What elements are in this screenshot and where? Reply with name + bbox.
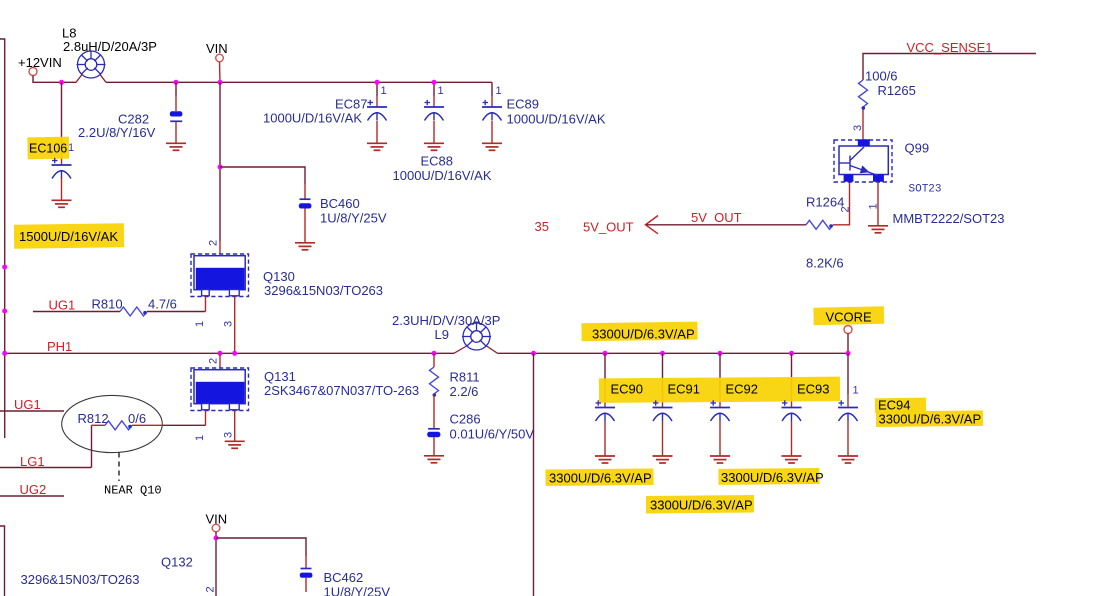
svg-text:2: 2 xyxy=(205,586,217,592)
transistor Q131 pin 3 wire xyxy=(234,410,236,441)
svg-text:2.3UH/D/V/30A/3P: 2.3UH/D/V/30A/3P xyxy=(392,313,500,328)
svg-text:1000U/D/16V/AK: 1000U/D/16V/AK xyxy=(393,168,492,183)
capacitor C286 xyxy=(427,429,440,437)
node junction dot on left bus (upper) xyxy=(2,265,7,270)
wire L9 to VCORE bus xyxy=(498,352,849,354)
ground EC92 xyxy=(710,456,730,463)
svg-text:3: 3 xyxy=(223,321,235,327)
svg-text:Q131: Q131 xyxy=(264,369,296,384)
transistor Q99 pin 1 wire xyxy=(877,182,879,226)
wire BC462 branch xyxy=(216,538,306,556)
capacitor EC94 xyxy=(838,400,858,421)
ground EC106 xyxy=(52,200,72,207)
wire EC89 to ground xyxy=(491,121,493,143)
svg-text:2.8uH/D/20A/3P: 2.8uH/D/20A/3P xyxy=(63,39,157,54)
svg-text:3300U/D/6.3V/AP: 3300U/D/6.3V/AP xyxy=(592,327,695,342)
svg-text:1: 1 xyxy=(194,435,206,441)
wire R810 to Q130 pin 1 xyxy=(147,311,206,313)
svg-text:3300U/D/6.3V/AP: 3300U/D/6.3V/AP xyxy=(879,412,982,427)
svg-text:NEAR Q10: NEAR Q10 xyxy=(104,484,162,498)
capacitor EC89 pin wire xyxy=(491,82,493,96)
wire R1265 to VCC_SENSE1 xyxy=(863,54,1036,81)
capacitor EC92 xyxy=(710,400,730,421)
wire EC90 to ground xyxy=(604,421,606,456)
value highlight 3300U top xyxy=(581,322,697,342)
capacitor BC460 xyxy=(299,199,312,208)
svg-text:1000U/D/16V/AK: 1000U/D/16V/AK xyxy=(263,111,362,126)
svg-text:Q99: Q99 xyxy=(905,141,930,156)
node junction dot PH1 at left bus xyxy=(2,351,7,356)
svg-text:EC88: EC88 xyxy=(421,154,454,169)
capacitor EC91 xyxy=(653,400,673,421)
ground Q131 pin 3 xyxy=(225,441,245,448)
svg-text:8.2K/6: 8.2K/6 xyxy=(806,256,844,271)
wire LG1 riser xyxy=(91,425,93,467)
wire main VIN bus xyxy=(106,81,492,83)
ground EC90 xyxy=(595,456,615,463)
svg-text:2: 2 xyxy=(840,206,852,212)
svg-text:EC93: EC93 xyxy=(797,382,830,397)
inductor L8 xyxy=(77,51,106,78)
wire UG1 to R810 xyxy=(33,311,120,313)
svg-text:Q130: Q130 xyxy=(263,269,295,284)
svg-text:35: 35 xyxy=(535,219,549,234)
capacitor EC94 value highlight xyxy=(876,410,983,427)
svg-text:EC91: EC91 xyxy=(668,382,701,397)
ground EC88 xyxy=(424,143,444,150)
svg-text:EC94: EC94 xyxy=(878,398,911,413)
svg-text:VCORE: VCORE xyxy=(826,310,873,325)
ground EC91 xyxy=(653,456,673,463)
svg-text:Q132: Q132 xyxy=(161,555,193,570)
wire UG1 lower stub xyxy=(0,410,64,412)
svg-text:1: 1 xyxy=(868,203,880,209)
svg-text:EC87: EC87 xyxy=(335,97,368,112)
bottom left border bus wire xyxy=(0,526,5,596)
svg-text:1: 1 xyxy=(438,85,444,97)
svg-text:0/6: 0/6 xyxy=(128,411,146,426)
svg-text:2.2U/8/Y/16V: 2.2U/8/Y/16V xyxy=(78,125,156,140)
value highlight 3300U lower C xyxy=(646,495,754,513)
capacitor EC106 xyxy=(52,158,72,179)
svg-text:SOT23: SOT23 xyxy=(909,184,942,196)
inductor L9 leads xyxy=(454,346,498,353)
wire R811 to C286 xyxy=(433,395,435,429)
capacitor EC90 pin wire xyxy=(604,353,606,394)
resistor R1264 xyxy=(806,220,833,229)
node VIN terminal xyxy=(216,54,224,62)
svg-text:100/6: 100/6 xyxy=(865,69,898,84)
capacitor EC106 pin wire xyxy=(61,82,63,151)
capacitor C282 xyxy=(170,111,183,121)
svg-text:2SK3467&07N037/TO-263: 2SK3467&07N037/TO-263 xyxy=(264,383,419,398)
node junction dot EC91 xyxy=(660,351,665,356)
value highlight 3300U lower B xyxy=(718,468,819,485)
ground EC93 xyxy=(782,456,802,463)
node junction dot EC93 xyxy=(789,351,794,356)
svg-text:3296&15N03/TO263: 3296&15N03/TO263 xyxy=(264,283,383,298)
capacitor C282 pin wire xyxy=(175,82,177,96)
capacitor EC92 pin wire xyxy=(719,353,721,394)
svg-text:R812: R812 xyxy=(78,411,109,426)
inductor L8 leads xyxy=(76,75,106,83)
ground EC89 xyxy=(482,143,502,150)
resistor R811 xyxy=(430,367,439,397)
svg-text:3300U/D/6.3V/AP: 3300U/D/6.3V/AP xyxy=(721,470,824,485)
capacitor EC93 xyxy=(782,400,802,421)
node +12VIN terminal xyxy=(29,68,37,76)
wire EC94 to ground xyxy=(847,421,849,456)
svg-text:UG1: UG1 xyxy=(14,397,41,412)
wire C282 to ground xyxy=(175,122,177,143)
svg-text:VCC_SENSE1: VCC_SENSE1 xyxy=(907,40,993,55)
svg-text:1: 1 xyxy=(381,85,387,97)
transistor Q130 xyxy=(191,254,249,297)
svg-text:UG2: UG2 xyxy=(20,482,47,497)
ground C282 xyxy=(166,143,186,150)
capacitor EC91 pin wire xyxy=(662,353,664,394)
node junction dot Q130 pin 3 xyxy=(232,351,237,356)
node junction dot EC90 xyxy=(603,351,608,356)
capacitor EC87 pin wire xyxy=(376,82,378,96)
svg-text:3300U/D/6.3V/AP: 3300U/D/6.3V/AP xyxy=(650,497,753,512)
wire BC460 to ground xyxy=(304,209,306,243)
node VCORE terminal xyxy=(844,326,852,334)
wire VIN bus down to Q130 xyxy=(219,82,221,241)
wire VIN lower down to Q132 xyxy=(215,532,217,596)
transistor Q131 pin 2 wire xyxy=(219,353,221,368)
ground EC94 xyxy=(838,456,858,463)
inductor L9 xyxy=(462,323,491,350)
svg-text:R811: R811 xyxy=(450,370,480,385)
wire LG1 xyxy=(0,467,92,469)
svg-text:1U/8/Y/25V: 1U/8/Y/25V xyxy=(320,211,387,226)
svg-text:UG1: UG1 xyxy=(49,298,76,313)
svg-text:EC89: EC89 xyxy=(507,97,540,112)
svg-text:R1265: R1265 xyxy=(878,83,916,98)
wire R1264 to Q99 pin 2 xyxy=(833,182,850,225)
node junction dot on left bus (lower) xyxy=(2,309,7,314)
svg-text:0.01U/6/Y/50V: 0.01U/6/Y/50V xyxy=(450,427,535,442)
svg-text:EC90: EC90 xyxy=(611,382,644,397)
transistor Q99 emitter arrow xyxy=(860,165,870,173)
svg-text:R810: R810 xyxy=(92,297,123,312)
wire R812 to Q131 pin 1 xyxy=(132,424,163,426)
svg-text:BC460: BC460 xyxy=(320,196,360,211)
transistor Q99 package xyxy=(834,139,892,182)
svg-text:3: 3 xyxy=(223,432,235,438)
node junction dot BC462 tap xyxy=(214,536,219,541)
capacitor EC93 pin wire xyxy=(791,353,793,394)
wire PH1 bus xyxy=(5,352,454,354)
capacitor EC88 pin wire xyxy=(433,82,435,96)
ellipse callout around R812 xyxy=(62,395,163,452)
svg-text:MMBT2222/SOT23: MMBT2222/SOT23 xyxy=(893,211,1005,226)
capacitor BC462 xyxy=(300,569,313,578)
transistor Q130 pin 1 wire xyxy=(205,296,207,311)
callout leader dashed line xyxy=(118,453,120,482)
node VIN lower terminal xyxy=(212,524,220,532)
svg-text:PH1: PH1 xyxy=(47,339,72,354)
svg-text:L9: L9 xyxy=(435,327,449,342)
svg-text:5V OUT: 5V OUT xyxy=(691,210,742,225)
capacitor EC88 xyxy=(424,100,444,121)
wire EC93 to ground xyxy=(791,421,793,456)
svg-text:1: 1 xyxy=(853,385,859,397)
wire 5V_OUT arrow xyxy=(646,216,659,234)
resistor R1265 xyxy=(859,80,868,110)
wire UG2 stub xyxy=(0,495,64,497)
capacitor EC87 xyxy=(367,100,387,121)
wire right branch down xyxy=(533,353,535,596)
node junction dot R811 tap xyxy=(432,351,437,356)
svg-text:BC462: BC462 xyxy=(324,570,364,585)
capacitor EC94 pin wire xyxy=(847,353,849,394)
left border bus wire xyxy=(0,39,5,438)
node VCORE highlight xyxy=(813,306,884,325)
transistor Q130 pin 3 wire xyxy=(234,296,236,353)
node junction dot VCORE xyxy=(846,351,851,356)
svg-text:4.7/6: 4.7/6 xyxy=(148,297,177,312)
capacitor EC106 value highlight xyxy=(14,223,124,249)
svg-text:LG1: LG1 xyxy=(20,454,45,469)
svg-text:1000U/D/16V/AK: 1000U/D/16V/AK xyxy=(507,112,606,127)
svg-text:3296&15N03/TO263: 3296&15N03/TO263 xyxy=(21,572,140,587)
node junction dot EC87 xyxy=(375,80,380,85)
ground C286 xyxy=(424,456,444,463)
resistor R812 xyxy=(105,421,132,430)
value highlight 3300U lower A xyxy=(545,469,653,486)
capacitor EC106 highlight xyxy=(27,137,69,160)
wire BC460 branch xyxy=(220,167,305,184)
resistor R811 pin wire xyxy=(433,353,435,367)
svg-text:3: 3 xyxy=(852,125,864,131)
ground BC460 xyxy=(295,243,315,250)
node junction dot EC106 tap xyxy=(59,80,64,85)
transistor Q99 NPN symbol xyxy=(839,147,878,176)
node junction dot Q131 pin 2 xyxy=(218,351,223,356)
transistor Q131 pin 1 wire xyxy=(205,410,207,425)
resistor R810 xyxy=(120,307,147,316)
ground EC87 xyxy=(367,143,387,150)
capacitor EC94 ref highlight xyxy=(875,398,926,413)
wire 5V_OUT xyxy=(646,224,806,226)
wire VCORE to bus xyxy=(847,334,849,354)
transistor Q99 pin 3 wire xyxy=(862,108,864,140)
node junction dot C282 tap xyxy=(174,80,179,85)
svg-text:1500U/D/16V/AK: 1500U/D/16V/AK xyxy=(19,229,118,244)
transistor Q131 xyxy=(191,368,249,411)
svg-text:2: 2 xyxy=(208,240,220,246)
svg-text:2.2/6: 2.2/6 xyxy=(450,384,479,399)
svg-text:2: 2 xyxy=(208,358,220,364)
wire BC462 lower lead xyxy=(305,578,307,592)
svg-text:5V_OUT: 5V_OUT xyxy=(583,220,634,235)
svg-text:1: 1 xyxy=(496,85,502,97)
wire EC92 to ground xyxy=(719,421,721,456)
node junction dot right branch xyxy=(531,351,536,356)
wire EC87 to ground xyxy=(376,121,378,143)
capacitor EC90 xyxy=(595,400,615,421)
node junction dot EC88 xyxy=(432,80,437,85)
svg-text:1: 1 xyxy=(194,321,206,327)
node junction dot VIN bus xyxy=(218,80,223,85)
svg-text:VIN: VIN xyxy=(206,41,228,56)
highlight band EC90-EC93 xyxy=(599,377,840,403)
svg-text:+12VIN: +12VIN xyxy=(18,55,62,70)
wire EC91 to ground xyxy=(662,421,664,456)
wire VIN terminal to bus xyxy=(219,62,222,83)
resistor R812 left lead xyxy=(92,424,106,426)
svg-text:EC106: EC106 xyxy=(29,142,67,156)
ground Q99 xyxy=(868,226,888,233)
node junction dot BC460 tap xyxy=(218,165,223,170)
svg-text:C286: C286 xyxy=(450,412,481,427)
wire +12VIN to L8 xyxy=(33,76,76,83)
svg-text:1U/8/Y/25V: 1U/8/Y/25V xyxy=(324,585,391,596)
svg-text:1: 1 xyxy=(68,142,74,154)
wire C286 to ground xyxy=(433,437,435,455)
svg-text:3300U/D/6.3V/AP: 3300U/D/6.3V/AP xyxy=(549,471,652,486)
node junction dot EC92 xyxy=(718,351,723,356)
wire EC88 to ground xyxy=(433,121,435,143)
wire EC106 to ground xyxy=(61,177,63,200)
svg-text:EC92: EC92 xyxy=(726,382,759,397)
capacitor EC89 xyxy=(482,100,502,121)
